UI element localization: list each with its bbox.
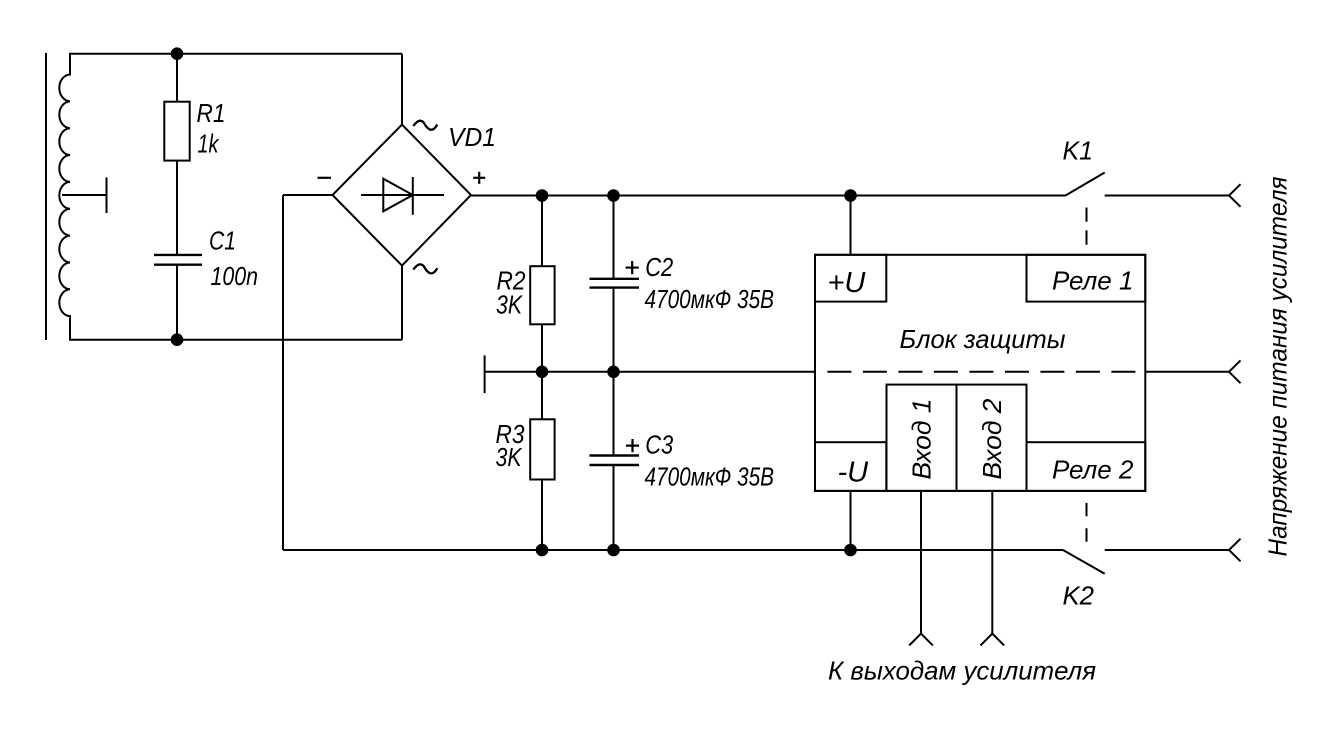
resistor R3 bbox=[530, 419, 554, 479]
capacitor C1 bbox=[154, 255, 202, 265]
diode bridge VD1 diamond bbox=[333, 125, 472, 266]
wire left vertical drop bbox=[282, 195, 284, 550]
wire C3 bottom lead bbox=[613, 466, 615, 550]
transformer winding T1 bbox=[59, 54, 70, 340]
node dot mid rail C bbox=[608, 367, 619, 378]
node junction bottom-left bbox=[172, 334, 183, 345]
svg-text:4700мкФ 35В: 4700мкФ 35В bbox=[645, 462, 775, 492]
mid rail terminal bar bbox=[484, 355, 486, 393]
wire bridge top lead bbox=[401, 54, 403, 125]
wire R2 top lead bbox=[541, 196, 543, 267]
svg-text:Вход 2: Вход 2 bbox=[977, 398, 1007, 480]
node junction top-left bbox=[172, 48, 183, 59]
svg-text:K1: K1 bbox=[1063, 136, 1094, 166]
protection block outline bbox=[815, 255, 1145, 491]
wire bridge bottom lead bbox=[401, 266, 403, 340]
node dot plus rail C2 bbox=[608, 190, 619, 201]
capacitor C3 bbox=[590, 456, 640, 466]
resistor R2 bbox=[530, 266, 554, 324]
node dot mid rail R bbox=[537, 367, 548, 378]
pin box Rele 1 bbox=[1027, 255, 1146, 302]
svg-text:1k: 1k bbox=[198, 128, 221, 158]
wire Vhod 1 pin bbox=[920, 491, 922, 634]
pin box Vhod 1 bbox=[887, 385, 957, 491]
svg-text:C1: C1 bbox=[209, 226, 236, 256]
wire plus rail bbox=[471, 195, 1066, 197]
plus polarity mark bbox=[473, 172, 485, 184]
node dot minus rail R3 bbox=[537, 545, 548, 556]
center tap wire bbox=[62, 194, 107, 196]
svg-text:4700мкФ 35В: 4700мкФ 35В bbox=[645, 284, 775, 314]
wire -U pin bbox=[850, 491, 852, 550]
pin box Rele 2 bbox=[1027, 442, 1146, 491]
node dot minus rail -U bbox=[845, 545, 856, 556]
fork terminal Vhod 2 bbox=[981, 634, 1005, 646]
wire C1 bottom lead bbox=[176, 266, 178, 340]
fork terminal bottom output bbox=[1229, 539, 1241, 562]
svg-text:Вход 1: Вход 1 bbox=[907, 399, 937, 480]
svg-text:VD1: VD1 bbox=[448, 122, 496, 152]
plus mark C2 bbox=[626, 261, 639, 274]
svg-text:К выходам усилителя: К выходам усилителя bbox=[828, 656, 1096, 686]
fork terminal mid output bbox=[1229, 360, 1241, 383]
switch K1 contact bbox=[1066, 173, 1105, 196]
pin box -U bbox=[815, 442, 886, 491]
fork terminal top output bbox=[1229, 184, 1241, 207]
svg-text:+U: +U bbox=[828, 267, 867, 299]
wire minus rail bbox=[283, 549, 1063, 551]
wire R3 top lead bbox=[541, 372, 543, 420]
wire R1 to C1 bbox=[176, 161, 178, 254]
switch K2 contact bbox=[1063, 550, 1105, 574]
plus mark C3 bbox=[626, 439, 639, 452]
center tap terminal bar bbox=[106, 178, 108, 214]
AC tilde bottom bbox=[413, 264, 437, 273]
node dot plus rail R2 bbox=[537, 190, 548, 201]
svg-text:3K: 3K bbox=[496, 442, 523, 472]
wire C2 bottom lead bbox=[613, 289, 615, 372]
svg-text:Напряжение питания усилителя: Напряжение питания усилителя bbox=[1263, 176, 1293, 556]
wire mid output bbox=[1145, 371, 1229, 373]
svg-text:3K: 3K bbox=[496, 290, 523, 320]
dashed mid line inside block bbox=[827, 371, 1145, 373]
dashed link K2 bbox=[1086, 503, 1088, 549]
wire K2 to output bbox=[1105, 549, 1229, 551]
node dot plus rail +U bbox=[845, 190, 856, 201]
wire Vhod 2 pin bbox=[991, 491, 993, 634]
wire bridge minus to left drop bbox=[283, 194, 333, 196]
minus polarity mark bbox=[318, 177, 332, 179]
dashed link K1 bbox=[1086, 208, 1088, 251]
pin box +U bbox=[815, 255, 886, 302]
wire C3 top lead bbox=[613, 372, 615, 455]
pin box Vhod 2 bbox=[957, 385, 1027, 491]
svg-text:Блок защиты: Блок защиты bbox=[900, 324, 1066, 354]
fork terminal Vhod 1 bbox=[909, 634, 933, 646]
transformer core bbox=[45, 53, 47, 340]
svg-text:K2: K2 bbox=[1063, 580, 1095, 610]
wire +U pin bbox=[850, 196, 852, 255]
wire mid rail bbox=[485, 371, 815, 373]
wire R1 top lead bbox=[176, 54, 178, 102]
svg-text:-U: -U bbox=[838, 456, 870, 488]
wire K1 to output bbox=[1105, 195, 1229, 197]
svg-text:R1: R1 bbox=[197, 98, 226, 128]
wire top rail left bbox=[69, 53, 402, 55]
svg-text:100n: 100n bbox=[211, 261, 259, 291]
wire R2 bottom lead bbox=[541, 324, 543, 372]
svg-text:C3: C3 bbox=[645, 430, 673, 460]
wire R3 bottom lead bbox=[541, 480, 543, 551]
AC tilde top bbox=[413, 121, 437, 130]
capacitor C2 bbox=[590, 279, 640, 288]
resistor R1 bbox=[164, 102, 189, 161]
node dot minus rail C3 bbox=[608, 545, 619, 556]
svg-text:Реле 2: Реле 2 bbox=[1052, 454, 1134, 484]
svg-text:Реле 1: Реле 1 bbox=[1052, 265, 1133, 295]
svg-text:C2: C2 bbox=[645, 252, 673, 282]
wire C2 top lead bbox=[613, 196, 615, 279]
diode VD1 inner symbol bbox=[361, 194, 444, 196]
wire bottom rail left bbox=[69, 339, 402, 341]
